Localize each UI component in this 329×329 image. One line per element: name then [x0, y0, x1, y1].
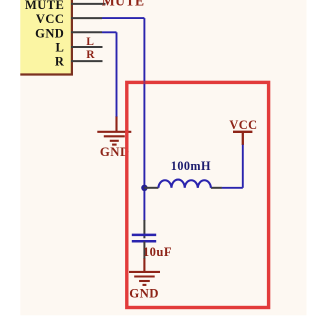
junction node [141, 185, 147, 191]
wire GND pin to ground [102, 31, 117, 33]
power symbol VCC [233, 132, 252, 145]
svg-text:VCC: VCC [229, 118, 257, 132]
capacitor C1 top lead [143, 220, 145, 238]
red highlight rectangle [127, 82, 269, 307]
inductor L1 winding [158, 180, 211, 188]
power ground symbol GND (bottom, below C) [129, 258, 160, 285]
wire VCC pin to vertical [102, 17, 144, 19]
wire GND vertical [116, 32, 118, 116]
component body border right [71, 0, 73, 75]
pin MUTE stub [71, 3, 106, 5]
svg-text:10uF: 10uF [143, 245, 172, 259]
pin R stub [71, 60, 103, 62]
red rectangle over wire crossing blend [143, 81, 147, 84]
pin L stub [71, 46, 103, 48]
svg-text:GND: GND [129, 287, 159, 301]
component body border bottom [20, 73, 73, 75]
inductor L1 leads [144, 187, 158, 189]
pin VCC stub [71, 17, 102, 19]
pin GND stub [71, 31, 102, 33]
svg-text:100mH: 100mH [171, 159, 211, 173]
svg-text:VCC: VCC [36, 12, 64, 26]
svg-text:L: L [86, 36, 94, 48]
wire inductor right to VCC riser [222, 187, 243, 189]
svg-text:MUTE: MUTE [25, 0, 64, 12]
svg-text:L: L [56, 41, 65, 55]
svg-text:GND: GND [35, 26, 64, 40]
svg-text:R: R [55, 54, 65, 68]
svg-text:R: R [86, 49, 95, 61]
power ground symbol GND (left) [97, 116, 131, 145]
wire main vertical (VCC pin down to capacitor node) [143, 18, 145, 220]
capacitor C1 bottom lead [143, 242, 145, 259]
component U? body (audio jack, cropped at left/top) [20, 0, 71, 75]
wire VCC riser vertical [242, 145, 244, 188]
svg-text:MUTE: MUTE [102, 0, 145, 9]
capacitor C1 plates [132, 234, 156, 237]
